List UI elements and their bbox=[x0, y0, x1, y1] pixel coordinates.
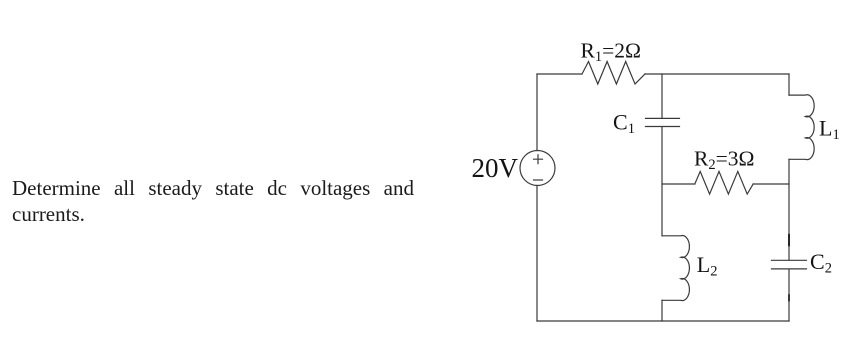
wire left vertical upper bbox=[536, 74, 538, 151]
wire right vertical middle bbox=[788, 159, 790, 260]
wire top middle-right bbox=[645, 73, 789, 75]
wire C1 branch lower bbox=[661, 127, 663, 236]
svg-text:R2=3Ω: R2=3Ω bbox=[694, 147, 754, 174]
resistor R1 bbox=[582, 62, 645, 85]
source V1 circle bbox=[520, 151, 555, 186]
wire top-left horizontal bbox=[537, 73, 582, 75]
svg-text:20V: 20V bbox=[472, 153, 519, 183]
wire L2 to bottom bbox=[661, 300, 663, 321]
wire R2 right lead bbox=[753, 183, 789, 185]
wire C1 branch upper bbox=[661, 74, 663, 118]
inductor L1 bbox=[789, 95, 814, 160]
wire R2 left lead bbox=[662, 183, 695, 185]
svg-text:R1=2Ω: R1=2Ω bbox=[581, 39, 641, 66]
svg-text:C1: C1 bbox=[613, 109, 635, 137]
wire overlap tick lower bbox=[788, 295, 790, 300]
source plus sign bbox=[534, 155, 543, 164]
inductor L2 bbox=[662, 236, 689, 301]
svg-text:L1: L1 bbox=[819, 116, 840, 144]
wire bottom horizontal bbox=[537, 320, 789, 322]
problem statement text bbox=[12, 175, 442, 227]
capacitor C2 bbox=[772, 260, 807, 269]
wire overlap tick upper bbox=[788, 235, 790, 246]
source minus sign bbox=[534, 179, 543, 181]
svg-text:C2: C2 bbox=[810, 249, 832, 277]
wire right vertical top lead bbox=[788, 74, 790, 95]
resistor R2 bbox=[695, 171, 753, 194]
wire left vertical lower bbox=[536, 186, 538, 322]
svg-text:L2: L2 bbox=[697, 252, 718, 280]
capacitor C1 bbox=[646, 118, 680, 126]
wire right vertical bottom bbox=[788, 269, 790, 321]
